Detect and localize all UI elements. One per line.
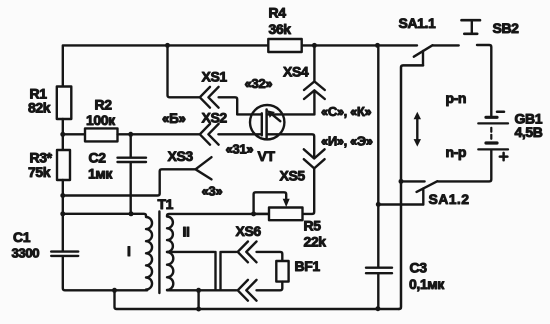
svg-text:«С», «К»: «С», «К» [321,104,371,119]
resistor R1 [57,87,72,120]
wire VT lower-right lead to XS5 [267,134,315,158]
capacitor across BF1 left line [214,252,216,290]
transistor VT channel bar [265,110,268,138]
resistor R4 [268,39,301,52]
switch SA1.2 pole stub [422,188,424,204]
node R1/R2/R3 junction [60,132,65,137]
svg-text:XS4: XS4 [283,64,309,80]
wire drop to bottom rail [115,290,400,309]
potentiometer R5 wiper arrow head [283,199,290,207]
resistor R5 (trimmer) [269,208,303,221]
svg-text:SA1.1: SA1.1 [399,15,437,31]
wire C3 bottom lead [377,274,379,308]
wire R3 bottom to C1 [62,180,64,250]
pushbutton SB2 actuator cap [462,19,481,22]
node transformer rail branch [60,211,65,216]
battery GB1 cell2 short plate [486,141,497,144]
wire top-left corner from top rail down to R1 [63,45,268,86]
wire VT upper-left lead [237,113,262,115]
svg-text:100к: 100к [86,112,116,128]
node on bottom rail below winding II [196,307,201,312]
wire C1 bottom corner to transformer bottom [63,257,147,290]
wire XS4 upper [313,45,315,81]
capacitor across BF1 right line [219,252,221,290]
svg-text:XS3: XS3 [168,148,194,164]
pushbutton SB2 bridge [464,32,477,35]
svg-text:«Б»: «Б» [162,111,186,126]
node XS3 branch [60,193,65,198]
switch SA1.1 pole stub [422,51,424,65]
capacitor C3 bottom plate [366,272,392,274]
svg-text:82k: 82k [28,99,51,115]
switch SA1.1 lever [414,45,433,57]
switch SA1.2 lever [417,181,438,192]
node winding rail dot [129,211,134,216]
battery GB1 dash link b [490,135,492,139]
capacitor C1 bottom plate [51,255,78,257]
wire SA1.2 left contact [401,180,425,182]
svg-text:BF1: BF1 [295,258,321,274]
transistor VT emitter arrow [272,114,281,121]
wire node to R2 [63,133,85,135]
wire rail to R5 [254,213,269,215]
wire XS4 lower to VT lead [313,90,315,114]
svg-text:75k: 75k [28,164,51,180]
svg-text:C3: C3 [410,260,428,276]
wire SB2 right contact to battery [477,45,491,116]
sound emitter BF1 [276,261,288,282]
connector XS2 [200,124,219,145]
battery GB1 cell1 long plate [478,122,508,124]
resistor R2 [85,128,118,141]
svg-text:T1: T1 [158,196,174,212]
connector XS4 [304,81,325,99]
svg-text:36k: 36k [269,21,292,37]
transformer II middle tap wire [167,251,214,253]
wire SA1.1 to SB2 [433,44,459,46]
svg-text:VT: VT [258,148,276,164]
svg-text:4,5В: 4,5В [515,124,543,140]
transformer T1 winding I [63,214,152,290]
battery GB1 cell2 long plate [478,148,508,150]
wire battery to SA1.2 [437,151,491,182]
wire top rail right of R4 [302,44,417,46]
svg-text:XS1: XS1 [202,69,228,85]
battery GB1 cell1 short plate [486,116,497,119]
wire node to R3 [62,134,64,150]
polarity reversal arrow up-down [416,117,418,142]
node winding II bottom [196,288,201,293]
wire drop from winding II bottom [197,290,199,309]
wire winding II bottom to XS6 bottom [199,289,237,291]
wire XS6 top to BF1 [257,252,283,261]
svg-text:«И», «Э»: «И», «Э» [321,134,373,149]
connector XS3 fork [196,157,212,179]
svg-text:R4: R4 [269,5,287,21]
battery GB1 dash link a [490,128,492,132]
node C2 branch [128,132,133,137]
resistor R3* [57,150,70,180]
potentiometer R5 wiper link [254,192,287,214]
node SA1.2 pole tap [376,202,381,207]
svg-text:3300: 3300 [12,246,40,261]
svg-text:n-p: n-p [446,144,467,160]
node XS4 branch [312,43,317,48]
connector XS1 [200,87,219,108]
wire XS1 elbow [168,45,200,97]
battery GB1 minus sign [497,110,504,113]
node SA1.2 left contact [399,179,404,184]
node XS1 branch on top rail [165,43,170,48]
node R5 left / wiper [251,211,256,216]
wire VT upper-right lead [267,113,315,115]
wire C2 bottom lead [129,163,131,214]
wire XS5 to R5 right [303,168,315,214]
wire to XS6 top [222,251,237,253]
wire R2 to XS2 (Б rail) [118,133,200,135]
svg-text:R5: R5 [304,217,322,233]
bottom rail to right riser [399,65,423,309]
battery GB1 plus sign [500,153,508,160]
transistor VT circle [250,105,284,139]
svg-text:0,1мк: 0,1мк [409,276,445,292]
svg-text:XS6: XS6 [236,223,262,239]
connector XS5 [304,149,325,168]
connector XS6 top [238,242,257,263]
capacitor C3 top plate [366,267,392,269]
wire R1 bottom to node [62,119,64,135]
svg-text:«32»: «32» [245,76,273,91]
svg-text:«3»: «3» [202,183,223,198]
capacitor C2 top plate [118,156,147,158]
svg-text:«31»: «31» [226,141,254,156]
svg-text:R2: R2 [95,97,113,113]
svg-text:C1: C1 [13,229,31,245]
svg-text:1мк: 1мк [88,165,113,181]
wire battery branch vertical to C3 [377,45,379,266]
svg-text:XS5: XS5 [280,168,306,184]
svg-text:II: II [183,223,190,239]
svg-text:XS2: XS2 [202,110,228,126]
transformer T1 core [158,212,160,294]
node C3 on bottom rail [375,306,380,311]
wire C2 top lead [129,134,131,156]
transformer T1 winding II [167,214,269,290]
svg-text:22k: 22k [304,233,327,249]
wire XS2 to VT lower-left lead [218,133,261,135]
svg-text:SA1.2: SA1.2 [429,191,470,207]
svg-text:p-n: p-n [446,90,467,106]
node bottom-left drop [112,288,117,293]
capacitor C1 top plate [51,250,78,252]
connector XS6 bottom [238,280,257,301]
transistor VT base bar [261,113,263,135]
svg-text:I: I [127,243,131,259]
svg-text:C2: C2 [89,149,107,165]
wire SA1.2 pole to tap [378,203,423,205]
pushbutton SB2 stem [471,20,473,34]
node battery branch [375,43,380,48]
wire XS1 to VT upper elbow [219,97,238,114]
svg-text:SB2: SB2 [493,20,520,36]
capacitor C2 bottom plate [118,161,147,163]
wire XS3 run from left spine [63,169,196,195]
wire BF1 bottom [257,282,283,291]
